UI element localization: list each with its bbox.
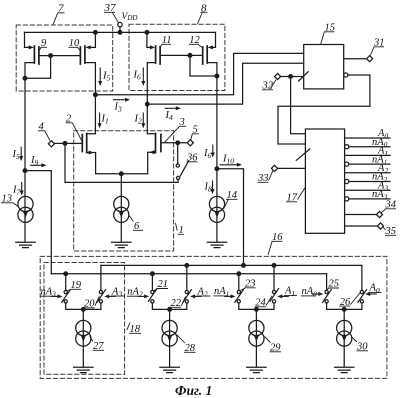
svg-text:A0: A0 (369, 283, 380, 295)
node on gate-3 lead (176, 141, 180, 145)
svg-text:21: 21 (158, 279, 169, 290)
output nA3 (345, 197, 349, 201)
label 4 leader (38, 131, 50, 141)
label 7 leader (53, 13, 65, 25)
wire: net N1 to block 15 input 1 (95, 53, 303, 94)
control arrow nA col (312, 293, 319, 295)
current arrow I5 left (20, 147, 22, 157)
ground (160, 367, 179, 372)
label 8 leader (198, 12, 208, 23)
current arrow I6 lower (212, 145, 214, 154)
svg-text:35: 35 (385, 226, 397, 237)
terminal 32 (275, 73, 281, 79)
wire: 15 inverted output to block 17 (278, 75, 370, 144)
svg-text:19: 19 (71, 280, 82, 291)
wire: diode connection of 12 (190, 55, 217, 76)
label 32 leader (262, 80, 276, 90)
transistor 3 (147, 104, 155, 134)
svg-text:I4: I4 (165, 110, 174, 122)
svg-text:10: 10 (69, 38, 80, 49)
dashed box 16 (switch array) (40, 256, 387, 378)
svg-text:33: 33 (257, 173, 269, 184)
control arrow nA col (138, 295, 145, 297)
svg-text:I1: I1 (101, 114, 109, 126)
label 19 leader (67, 289, 81, 291)
terminal 35 (345, 225, 378, 227)
node: drains 11/3 junction (145, 102, 149, 106)
inverted output bubble of 15 (344, 73, 348, 77)
current source 13 (24, 171, 26, 242)
output A1 (345, 154, 390, 156)
svg-text:nA0: nA0 (302, 286, 318, 298)
control arrow nA col (224, 295, 231, 297)
ground (112, 242, 131, 247)
dashed box 7 (current mirror 9,10) (16, 25, 113, 91)
svg-text:I6: I6 (203, 148, 212, 160)
wire: join col3 (239, 303, 274, 309)
switch 21 (151, 274, 153, 291)
svg-text:12: 12 (189, 35, 200, 46)
current arrow I6 (142, 68, 144, 82)
label 25 leader (327, 288, 339, 290)
label 14 leader (224, 199, 238, 208)
label 18 leader (127, 323, 141, 334)
wire: left mirror output, drain of 9 down (24, 78, 26, 170)
svg-text:8: 8 (201, 3, 207, 15)
wire: common source of 2,3 (96, 173, 148, 175)
control arrow A col (282, 295, 289, 297)
wire: join col1 (66, 303, 101, 309)
switch 23 (238, 274, 240, 291)
svg-text:36: 36 (186, 153, 198, 164)
svg-text:20: 20 (84, 299, 95, 310)
ground (207, 242, 226, 247)
current arrow I5 right (99, 68, 101, 82)
current source 29 (255, 309, 257, 366)
ground (74, 367, 93, 372)
switch 25 (326, 274, 328, 291)
control arrow nA col (51, 295, 58, 297)
label 6 leader (128, 214, 143, 230)
svg-text:A1: A1 (284, 286, 295, 298)
svg-text:13: 13 (2, 194, 13, 205)
wire: join col4 (327, 303, 362, 309)
label 31 leader (370, 47, 384, 56)
label 27 leader (90, 336, 104, 350)
wire: join col2 (152, 303, 186, 309)
svg-text:nA1: nA1 (214, 286, 229, 298)
svg-text:23: 23 (245, 279, 256, 290)
node W1 col3 (237, 272, 241, 276)
dashed box 1 (differential stage) (74, 131, 174, 251)
svg-text:7: 7 (58, 3, 64, 15)
label 28 leader (177, 335, 196, 353)
current arrow I4 (165, 107, 177, 109)
wire W2 (direct bus) (101, 264, 362, 266)
label 16 leader (268, 241, 283, 255)
svg-text:A3: A3 (111, 286, 122, 298)
output A3 (345, 189, 390, 191)
svg-text:3: 3 (179, 117, 185, 128)
dashed box 8 (current mirror 11,12) (129, 24, 225, 90)
current source 28 (169, 309, 171, 366)
transistor 10 (89, 32, 96, 47)
label 24 leader (255, 296, 272, 307)
switch 36 (177, 143, 179, 164)
svg-text:14: 14 (227, 190, 238, 201)
node: drains 10/2 junction (94, 93, 98, 97)
output A0 (345, 137, 390, 139)
label 13 leader (1, 203, 18, 207)
dashed box 18 (cell: switches 19,20 + source 27) (44, 263, 125, 375)
label 37 leader (104, 12, 119, 22)
label 21 leader (154, 289, 168, 291)
svg-text:11: 11 (162, 35, 172, 46)
svg-text:24: 24 (255, 298, 266, 309)
label 3 leader (165, 126, 187, 142)
wire: node to W2 feed (217, 169, 244, 266)
label 30 leader (352, 337, 368, 351)
svg-text:16: 16 (272, 232, 283, 243)
label 1 leader (176, 223, 185, 234)
transistor 9 (25, 32, 31, 47)
svg-text:22: 22 (171, 298, 182, 309)
svg-text:I5: I5 (12, 149, 21, 161)
nA3 underline (40, 295, 55, 297)
current arrow I10 (220, 164, 238, 166)
control arrow A col (195, 295, 202, 297)
svg-text:28: 28 (185, 343, 196, 354)
svg-text:1: 1 (179, 225, 184, 236)
label 33 leader (258, 170, 274, 182)
current arrow I1 (99, 113, 101, 124)
terminal 37 VDD (118, 22, 122, 26)
transistor 11 (147, 32, 152, 47)
svg-text:Фиг. 1: Фиг. 1 (175, 383, 212, 398)
current arrow I8 (212, 181, 214, 190)
svg-text:37: 37 (104, 2, 117, 14)
svg-text:I2: I2 (134, 114, 143, 126)
svg-text:32: 32 (262, 81, 274, 92)
nA0 underline (301, 295, 316, 297)
A2 underline (197, 295, 211, 297)
label 9 leader (39, 47, 47, 51)
svg-text:5: 5 (193, 125, 198, 136)
current source 30 (343, 309, 345, 366)
label 17 leader (286, 188, 305, 202)
control arrow A col (109, 295, 116, 297)
adjustment slash on 17 (296, 149, 310, 160)
switch 20 (100, 265, 102, 290)
label 11 leader (160, 44, 171, 47)
terminal 5 (187, 140, 193, 146)
A3 underline (111, 295, 125, 297)
svg-text:2: 2 (66, 114, 72, 125)
block 15 (304, 45, 344, 89)
terminal 33 (271, 165, 277, 171)
output nA0 (345, 145, 349, 149)
adjustment slash on 15 (299, 72, 309, 81)
node W2 col3 (272, 264, 276, 268)
VDD supply rail (25, 31, 216, 33)
node: right mirror output junction (215, 167, 219, 171)
svg-text:29: 29 (270, 343, 281, 354)
wire: node 9-drain to W1 feed (25, 171, 51, 274)
block 17 (305, 129, 344, 233)
output nA1 (345, 162, 349, 166)
svg-text:I10: I10 (222, 154, 234, 166)
wire: diode connection of 9 (25, 56, 51, 79)
transistor 12 (211, 32, 215, 47)
wire: node 4 to switch 36 (65, 143, 178, 182)
label 34 leader (381, 209, 396, 213)
node W1 col2 (151, 272, 155, 276)
output nA2 (345, 179, 349, 183)
node: rail junction right (145, 31, 149, 35)
current arrow I2 (142, 113, 144, 124)
nA2 underline (127, 295, 142, 297)
transistor 2 (87, 95, 96, 134)
svg-text:17: 17 (287, 193, 298, 204)
label 36 underline (187, 161, 198, 163)
svg-text:6: 6 (134, 221, 140, 232)
nA1 underline (214, 295, 229, 297)
svg-text:26: 26 (340, 297, 351, 308)
svg-text:25: 25 (329, 279, 340, 290)
switch 24 (273, 265, 275, 290)
svg-text:4: 4 (39, 122, 45, 133)
svg-text:VDD: VDD (122, 12, 138, 22)
node on gate-2 lead (63, 142, 67, 146)
A1 underline (284, 294, 297, 296)
output of 15 to terminal 31 (344, 58, 367, 60)
svg-text:I9: I9 (30, 155, 39, 167)
label 23 leader (240, 288, 255, 291)
svg-text:9: 9 (41, 38, 47, 49)
label 5 leader (191, 134, 199, 140)
label 35 leader (383, 227, 396, 235)
label 20 leader (84, 296, 100, 308)
current arrow I9 (30, 164, 42, 166)
node W2 col2 (185, 264, 189, 268)
svg-text:30: 30 (356, 342, 368, 353)
svg-text:nA3: nA3 (41, 287, 57, 299)
ground (247, 367, 266, 372)
gate bus of 9,10 (39, 55, 81, 57)
label 22 leader (170, 297, 186, 308)
svg-text:I6: I6 (133, 70, 142, 82)
current arrow I3 (113, 99, 126, 101)
label 2 leader (66, 123, 83, 142)
wire: gate lead of 2 (55, 142, 83, 144)
svg-text:I8: I8 (204, 182, 213, 194)
svg-text:nA2: nA2 (127, 287, 143, 299)
label 15 leader (321, 32, 335, 45)
node W1 col1 (64, 272, 68, 276)
svg-text:I7: I7 (12, 185, 21, 197)
ground (335, 367, 354, 372)
svg-text:15: 15 (325, 23, 336, 34)
svg-text:31: 31 (373, 38, 385, 49)
current arrow I7 (21, 182, 23, 191)
current source 27 (82, 309, 84, 366)
label 10 leader (69, 47, 81, 51)
svg-text:A2: A2 (197, 286, 208, 298)
label 12 leader (189, 44, 202, 47)
control arrow A col (370, 293, 377, 295)
wire: gate lead of 3 (161, 142, 187, 144)
gate bus of 11,12 (160, 54, 203, 56)
output A2 (345, 172, 390, 174)
wire W1 (inverting bus) (51, 273, 326, 275)
switch 26 (361, 265, 363, 290)
svg-text:18: 18 (130, 324, 141, 335)
label 26 leader (339, 293, 360, 307)
wire: net N2 to block 15 input 2 (147, 63, 303, 104)
ground (16, 242, 35, 247)
svg-text:I5: I5 (102, 71, 111, 83)
svg-text:27: 27 (93, 341, 104, 352)
switch 19 (65, 274, 67, 291)
terminal 4 (48, 141, 54, 147)
label 29 leader (264, 337, 281, 352)
A0 underline (369, 291, 382, 293)
switch 22 (186, 265, 188, 290)
wire: 32 branch to block 17 (291, 77, 306, 134)
terminal 34 (345, 214, 377, 216)
current source 6 (120, 174, 122, 242)
current source 14 (216, 169, 218, 242)
node: rail junction left (94, 31, 98, 35)
svg-text:I3: I3 (114, 102, 123, 114)
